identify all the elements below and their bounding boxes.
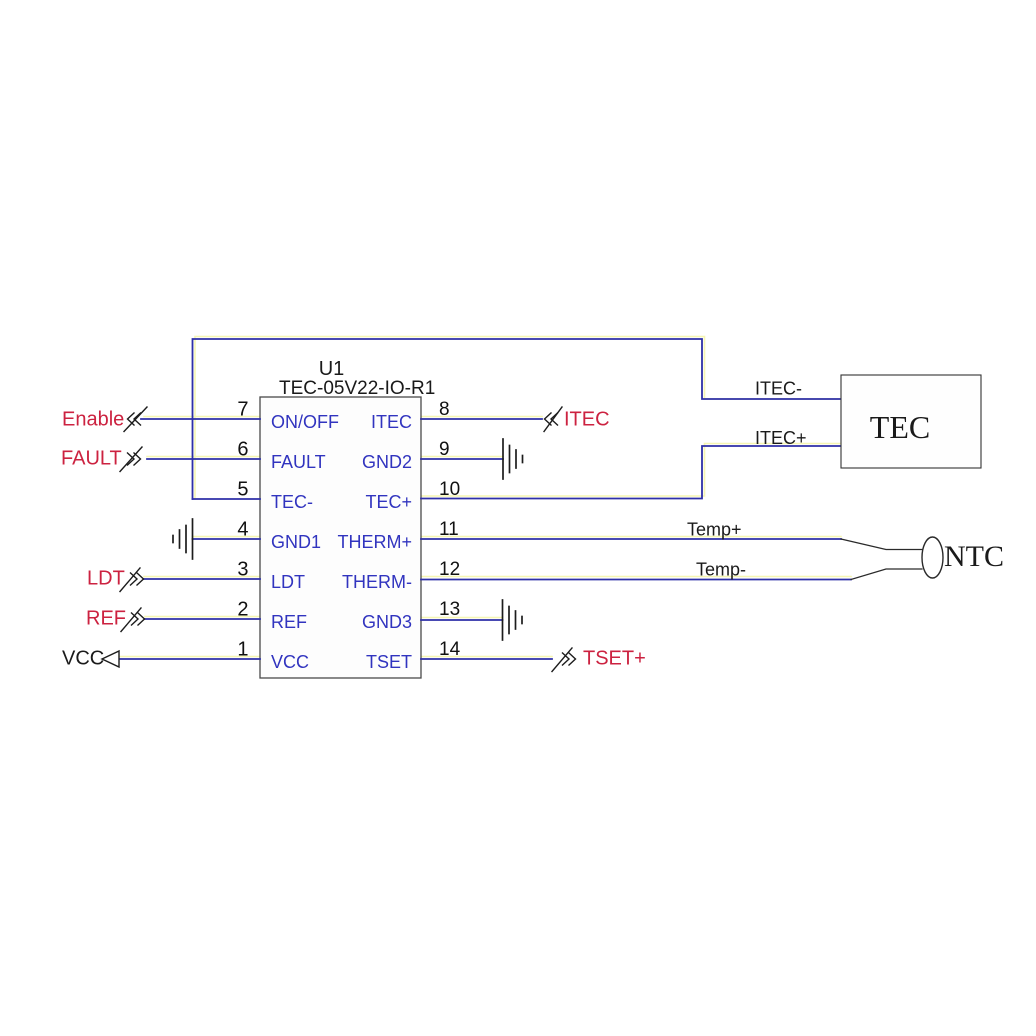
svg-text:5: 5 <box>237 479 248 501</box>
svg-text:TEC+: TEC+ <box>365 492 412 512</box>
svg-text:VCC: VCC <box>62 648 104 670</box>
wire: net TEC+ halo <box>421 444 841 497</box>
wire pin7 Enable <box>141 418 260 420</box>
wire pin9 GND2 <box>421 458 503 460</box>
svg-text:ITEC: ITEC <box>564 409 610 431</box>
wire pin14 TSET <box>421 658 552 660</box>
svg-text:ITEC-: ITEC- <box>755 379 802 399</box>
svg-text:ITEC: ITEC <box>371 412 412 432</box>
svg-text:Temp+: Temp+ <box>687 520 742 540</box>
off-page connector FAULT (right) <box>120 447 142 472</box>
svg-text:11: 11 <box>439 519 459 540</box>
svg-text:10: 10 <box>439 479 460 500</box>
svg-text:12: 12 <box>439 559 460 580</box>
wire pin13 GND3 <box>421 619 503 621</box>
svg-text:FAULT: FAULT <box>271 452 326 472</box>
svg-text:Temp-: Temp- <box>696 560 746 580</box>
svg-text:Enable: Enable <box>62 409 124 431</box>
svg-text:REF: REF <box>271 612 307 632</box>
wire pin5 TEC- stub <box>193 498 261 500</box>
svg-text:1: 1 <box>237 639 248 661</box>
svg-text:ITEC+: ITEC+ <box>755 428 807 448</box>
ground GND1 (pin 4) <box>173 519 193 559</box>
wire pin11 THERM+ (Temp+) <box>421 538 841 540</box>
svg-text:FAULT: FAULT <box>61 448 122 470</box>
TEC module box <box>841 375 981 468</box>
svg-text:6: 6 <box>237 439 248 461</box>
svg-text:14: 14 <box>439 639 461 660</box>
svg-text:VCC: VCC <box>271 652 309 672</box>
off-page connector REF (right) <box>121 608 145 632</box>
svg-text:13: 13 <box>439 599 460 620</box>
wire pin2 REF <box>145 618 260 620</box>
svg-text:GND2: GND2 <box>362 452 412 472</box>
svg-text:THERM-: THERM- <box>342 572 412 592</box>
power port VCC (triangle) <box>102 651 119 667</box>
ground GND2 (pin 9) <box>503 439 523 479</box>
svg-text:TEC-: TEC- <box>271 492 313 512</box>
svg-text:9: 9 <box>439 439 450 460</box>
svg-text:THERM+: THERM+ <box>337 532 412 552</box>
wire pin1 VCC <box>119 658 260 660</box>
svg-text:LDT: LDT <box>271 572 305 592</box>
wire: net TEC- halo <box>195 337 841 500</box>
svg-text:REF: REF <box>86 608 126 630</box>
wire pin12 THERM- (Temp-) <box>421 579 851 581</box>
off-page connector ITEC (left) <box>544 407 562 432</box>
svg-text:3: 3 <box>237 559 248 581</box>
off-page connector TSET+ (right) <box>552 648 576 672</box>
wire pin3 LDT <box>144 578 260 580</box>
wire pin6 FAULT <box>147 458 260 460</box>
off-page connector Enable (left) <box>124 407 147 432</box>
svg-text:NTC: NTC <box>944 540 1004 573</box>
IC U1 body <box>260 397 421 678</box>
svg-text:GND1: GND1 <box>271 532 321 552</box>
off-page connector LDT (right) <box>120 568 144 592</box>
svg-text:LDT: LDT <box>87 568 125 590</box>
ground GND3 (pin 13) <box>503 600 523 640</box>
NTC lead Temp- <box>851 569 922 580</box>
wire: net TEC- loop to TEC box (ITEC-) <box>193 339 842 499</box>
wire halos horizontal <box>119 417 851 657</box>
svg-text:U1: U1 <box>319 358 345 380</box>
svg-text:ON/OFF: ON/OFF <box>271 412 339 432</box>
svg-text:2: 2 <box>237 599 248 621</box>
svg-text:TSET+: TSET+ <box>583 648 646 670</box>
svg-text:TSET: TSET <box>366 652 412 672</box>
svg-text:GND3: GND3 <box>362 612 412 632</box>
wire pin4 GND1 <box>193 538 261 540</box>
svg-text:8: 8 <box>439 399 450 420</box>
svg-text:TEC: TEC <box>870 409 930 445</box>
NTC thermistor bead <box>922 537 943 578</box>
svg-text:4: 4 <box>237 519 248 541</box>
svg-text:TEC-05V22-IO-R1: TEC-05V22-IO-R1 <box>279 378 435 399</box>
wire pin8 ITEC <box>421 418 542 420</box>
wire pin10 TEC+ to TEC box (ITEC+) <box>421 446 841 499</box>
svg-text:7: 7 <box>237 399 248 421</box>
NTC lead Temp+ <box>841 539 922 550</box>
